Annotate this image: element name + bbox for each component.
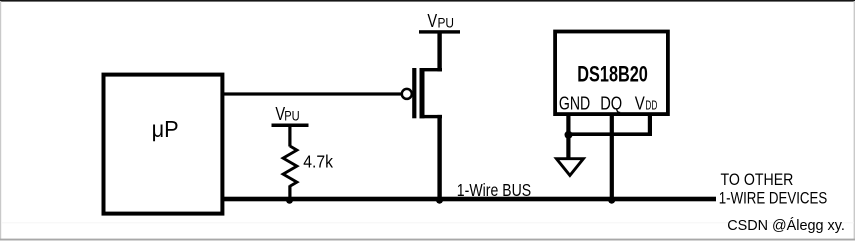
GND pin wire: [566, 116, 570, 159]
svg-text:1-Wire BUS: 1-Wire BUS: [457, 180, 532, 200]
svg-text:DS18B20: DS18B20: [577, 62, 648, 87]
svg-text:DQ: DQ: [600, 93, 622, 114]
MOSFET Q1 drain wire: [437, 32, 441, 71]
ground symbol: [556, 159, 583, 176]
DQ pin wire down to bus: [610, 116, 614, 200]
svg-text:TO OTHER: TO OTHER: [721, 171, 794, 189]
MOSFET Q1 channel with top arm: [420, 68, 443, 71]
svg-text:4.7k: 4.7k: [303, 152, 333, 172]
pin label VDD: [635, 93, 658, 114]
svg-text:1-WIRE DEVICES: 1-WIRE DEVICES: [719, 190, 827, 207]
VPU rail bar above MOSFET Q1: [419, 30, 460, 33]
MOSFET Q1 source wire down to bus: [437, 115, 441, 198]
MOSFET Q1 gate bar: [412, 68, 416, 118]
tie wire GND to VDD (parasite power): [566, 132, 652, 136]
page right border: [854, 1, 855, 239]
svg-text:GND: GND: [559, 93, 590, 114]
wire: uP to MOSFET gate: [222, 92, 401, 95]
page top border: [0, 0, 855, 2]
faint separator line above watermark strip: [1, 222, 854, 223]
node: DQ junction dot: [608, 197, 615, 204]
page bottom border: [0, 239, 855, 241]
node: MOSFET source junction dot: [436, 197, 443, 204]
resistor R1 top lead: [288, 126, 291, 147]
VPU label above MOSFET: [427, 10, 454, 31]
VPU rail bar above resistor R1: [272, 124, 309, 128]
svg-text:V: V: [635, 93, 646, 114]
wire: uP to 1-wire bus + bus to right: [222, 197, 716, 202]
MOSFET Q1 gate bubble: [402, 89, 412, 99]
svg-text:μP: μP: [152, 115, 179, 142]
svg-text:PU: PU: [438, 14, 455, 30]
resistor R1 bottom lead: [288, 185, 291, 198]
page left border: [0, 1, 1, 239]
microprocessor box uP: [104, 75, 223, 214]
svg-text:V: V: [427, 10, 437, 31]
svg-text:CSDN @Álegg xy.: CSDN @Álegg xy.: [727, 217, 845, 234]
GND junction dot: [565, 131, 573, 139]
VPU label above resistor: [275, 103, 299, 124]
svg-text:PU: PU: [284, 109, 299, 124]
MOSFET Q1 channel bottom arm: [420, 115, 443, 118]
resistor R1 4.7k zigzag: [283, 146, 297, 186]
svg-text:DD: DD: [645, 99, 657, 113]
VDD pin wire: [648, 116, 652, 137]
node: resistor bottom junction dot: [286, 197, 293, 204]
MOSFET Q1 channel bar: [420, 68, 425, 118]
DS18B20 box U1: [555, 32, 668, 115]
